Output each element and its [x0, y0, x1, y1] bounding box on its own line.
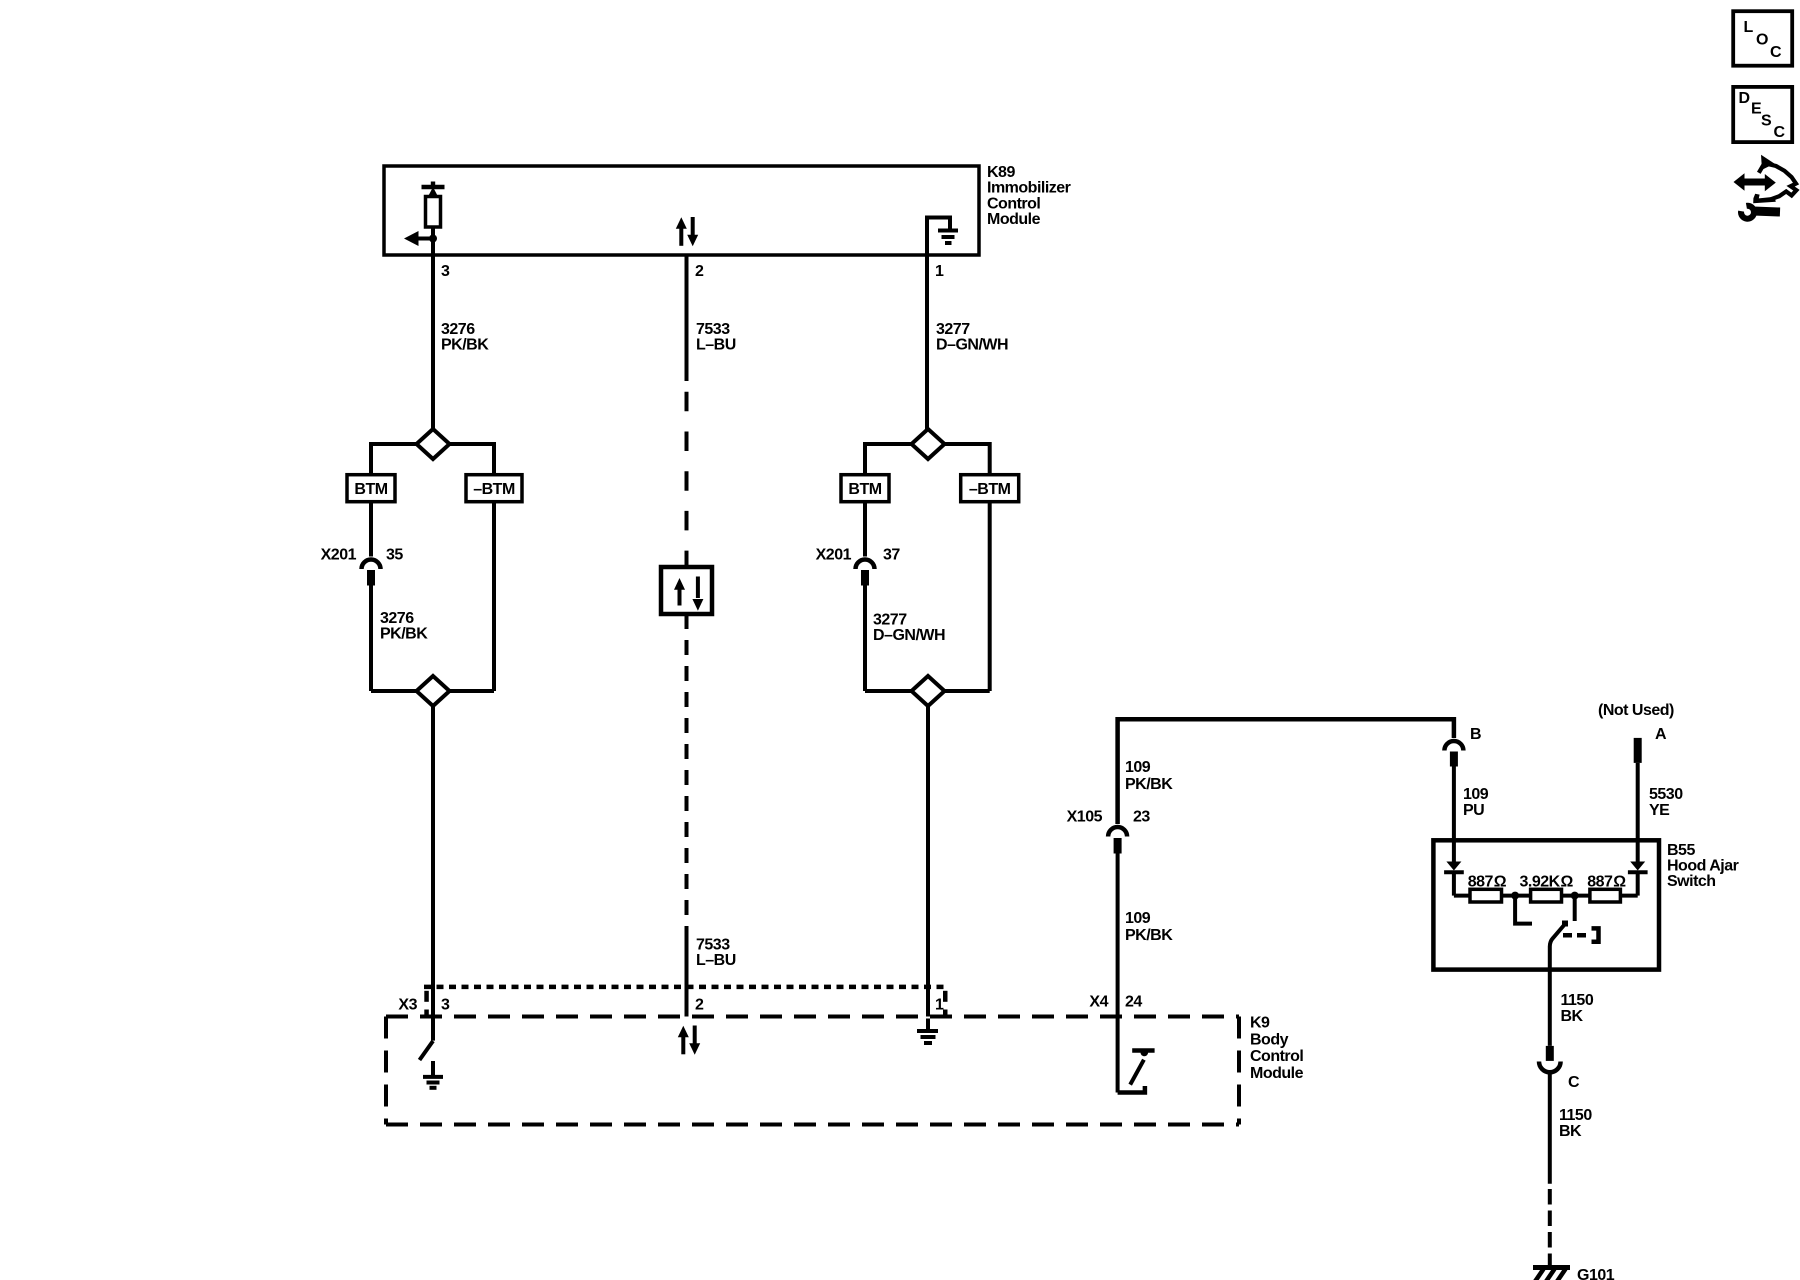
- wire 1150 BK below connector C: [1548, 1070, 1552, 1184]
- ground symbol inside K89 pin 1: [927, 218, 958, 256]
- resistor R2 3.92K ohm: [1531, 889, 1562, 902]
- splice diamond left upper: [417, 429, 450, 459]
- svg-text:C: C: [1568, 1074, 1580, 1091]
- DESC icon box: [1733, 87, 1792, 142]
- svg-text:37: 37: [883, 547, 900, 564]
- ground G101: [1533, 1268, 1570, 1280]
- wire 3277 D-GN/WH from K89 pin 1: [925, 255, 929, 429]
- bidirectional arrows inside K9 at pin 2: [678, 1026, 700, 1055]
- svg-text:A: A: [1655, 726, 1667, 743]
- wire 3277 down to BCM ground: [926, 706, 930, 1017]
- terminal box -BTM right: [961, 475, 1019, 502]
- bidirectional signal arrows inside K89 pin 2: [676, 217, 698, 246]
- svg-text:X4: X4: [1089, 994, 1108, 1011]
- switch blade: [1550, 924, 1565, 970]
- svg-text:3: 3: [441, 263, 450, 280]
- connector X201 pin 35: [362, 560, 381, 586]
- dashed wire 7533 L-BU lower segment: [685, 614, 689, 933]
- svg-text:X3: X3: [398, 997, 417, 1014]
- wire 7533 L-BU from K89 pin 2: [685, 255, 689, 381]
- svg-text:2: 2: [695, 263, 704, 280]
- LOC icon box: [1733, 11, 1792, 65]
- actuator bracket: [1592, 928, 1599, 941]
- svg-text:3: 3: [441, 997, 450, 1014]
- svg-text:1: 1: [935, 263, 944, 280]
- svg-text:2: 2: [695, 997, 704, 1014]
- mechanical link dashes: [1563, 933, 1588, 938]
- svg-text:O: O: [1756, 32, 1768, 49]
- diode D1 (terminal B side): [1444, 840, 1464, 895]
- wire 3276 PK/BK from K89 pin 3: [431, 255, 435, 429]
- svg-text:L: L: [1744, 19, 1754, 36]
- wire branch to -BTM left: [450, 444, 495, 475]
- diode D2 (terminal A side): [1628, 840, 1648, 895]
- wire 3276 down to BCM X3-3: [431, 706, 435, 1041]
- svg-text:X105: X105: [1067, 808, 1103, 825]
- wire 1150 BK below switch: [1548, 970, 1552, 1046]
- dashed wire 7533 L-BU upper segment: [685, 392, 689, 567]
- svg-text:–BTM: –BTM: [473, 481, 515, 498]
- switch contact branch from node 2: [1573, 896, 1577, 921]
- svg-text:X201: X201: [816, 547, 852, 564]
- switch to ground inside K9 at pin 3: [420, 1041, 434, 1060]
- terminal box -BTM left: [466, 475, 522, 502]
- open contact branch from node 1: [1515, 896, 1532, 924]
- splice diamond right lower: [912, 676, 945, 706]
- svg-text:–BTM: –BTM: [969, 481, 1011, 498]
- wire 5530 YE: [1636, 763, 1640, 840]
- module K9 Body Control Module dashed box: [386, 1017, 1239, 1125]
- connector C: [1539, 1046, 1561, 1072]
- svg-text:X201: X201: [321, 547, 357, 564]
- svg-text:G101: G101: [1577, 1267, 1615, 1280]
- svg-text:(Not Used): (Not Used): [1598, 702, 1674, 719]
- inline connector symbol box 7533: [661, 567, 712, 614]
- terminal box BTM left: [347, 475, 395, 502]
- component B55 Hood Ajar Switch box: [1433, 840, 1659, 969]
- svg-text:1: 1: [935, 997, 944, 1014]
- resistor R1 887 ohm: [1470, 889, 1502, 902]
- terminal box BTM right: [841, 475, 889, 502]
- wire from -BTM right down: [988, 502, 992, 691]
- svg-text:887 Ω: 887 Ω: [1587, 873, 1626, 890]
- splice diamond left lower: [417, 676, 450, 706]
- module K89 Immobilizer Control Module box: [384, 166, 979, 255]
- junction node dot 2: [1571, 892, 1579, 900]
- wire branch to BTM left: [371, 444, 417, 475]
- wire 109 PK/BK into BCM: [1116, 853, 1120, 1093]
- ground symbol inside K9 left: [423, 1061, 443, 1088]
- switch symbol inside K9 at X4-24: [1118, 1049, 1155, 1093]
- connector B of hood ajar switch: [1444, 741, 1463, 767]
- wire below X201-35: [369, 585, 373, 691]
- svg-text:B: B: [1470, 726, 1481, 743]
- wire into lower left splice: [371, 689, 417, 693]
- dashed wire to ground: [1548, 1189, 1552, 1266]
- svg-text:BTM: BTM: [354, 481, 387, 498]
- wire 109 PK/BK vertical + horizontal run to hood switch: [1118, 719, 1454, 824]
- solid wire 7533 into BCM: [685, 933, 689, 1017]
- connector X201 pin 37: [856, 560, 875, 586]
- svg-text:23: 23: [1133, 808, 1150, 825]
- repair info icon (arrows and wrench): [1734, 155, 1797, 219]
- wire from -BTM left down: [492, 502, 496, 691]
- svg-text:BTM: BTM: [848, 481, 881, 498]
- terminal A stub (not used): [1634, 738, 1642, 763]
- wire from BTM left down: [369, 502, 373, 557]
- ground symbol inside K9 at pin 1: [917, 1019, 938, 1044]
- wire from BTM right down: [863, 502, 867, 557]
- wire 3277 right group: [945, 444, 990, 475]
- svg-text:C: C: [1774, 124, 1786, 141]
- connector X3 dotted boundary: [424, 987, 948, 1017]
- junction node dot 1: [1511, 892, 1519, 900]
- wire 109 PU: [1452, 765, 1456, 841]
- splice diamond right upper: [912, 429, 945, 459]
- svg-text:C: C: [1770, 44, 1782, 61]
- svg-text:24: 24: [1125, 994, 1142, 1011]
- wire below X201-37: [863, 585, 867, 691]
- transceiver antenna symbol inside K89 pin 3: [404, 182, 445, 256]
- svg-text:3.92K Ω: 3.92K Ω: [1520, 873, 1574, 890]
- svg-text:35: 35: [386, 547, 403, 564]
- connector X105 pin 23: [1108, 827, 1127, 853]
- resistor network wire row: [1454, 894, 1470, 898]
- svg-text:887 Ω: 887 Ω: [1468, 873, 1507, 890]
- svg-text:S: S: [1761, 113, 1772, 130]
- resistor R3 887 ohm: [1590, 889, 1621, 902]
- svg-text:D: D: [1739, 90, 1751, 107]
